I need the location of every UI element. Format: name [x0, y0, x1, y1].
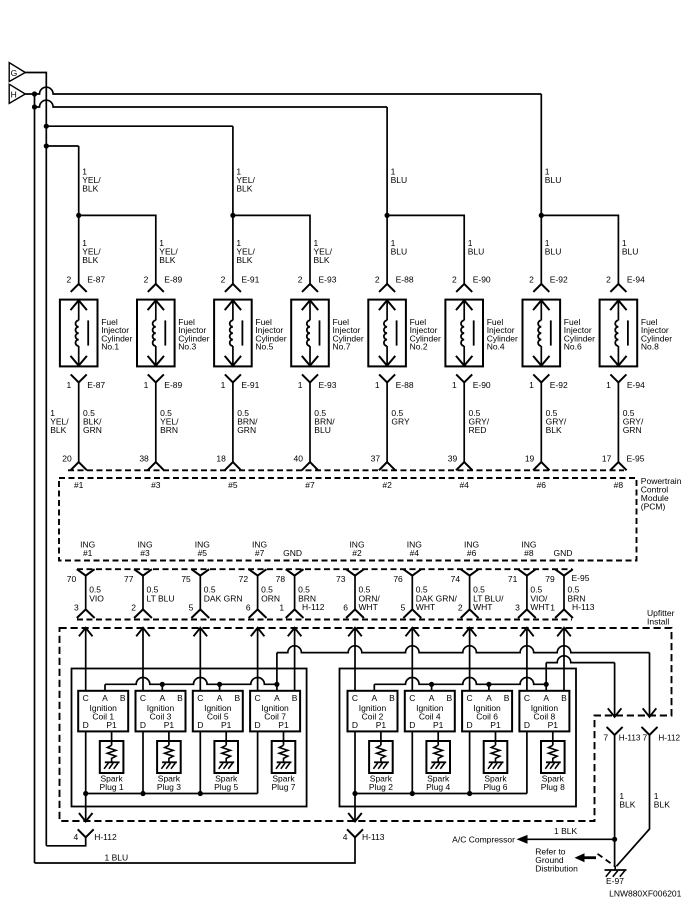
wire PCM pin 75 to upfitter pin 5 [199, 576, 201, 610]
spark plug 7 ground symbol [277, 761, 292, 763]
svg-text:E-88: E-88 [396, 380, 414, 390]
svg-text:Plug 8: Plug 8 [541, 782, 565, 792]
wire entering upfitter install (arrow) [136, 628, 150, 637]
spark plug 4 resistor [434, 745, 443, 762]
junction A-bus [160, 682, 165, 687]
svg-text:C: C [197, 693, 203, 703]
wire BLU branch to injectors 2-4 with hop over G vertical [35, 100, 388, 107]
svg-text:WHT: WHT [530, 602, 549, 612]
ignition coil 6 box [462, 691, 512, 732]
wire coil 5 P1 to spark plug 5 [225, 731, 227, 745]
svg-text:E-87: E-87 [87, 380, 105, 390]
wire right coil D bus [355, 793, 527, 795]
spark plug 5 resistor [222, 745, 231, 762]
svg-text:GRN: GRN [83, 425, 102, 435]
wire left D bus exit to H-112 pin 4 [85, 794, 87, 822]
svg-text:Plug 1: Plug 1 [100, 782, 124, 792]
svg-text:C: C [409, 693, 415, 703]
svg-text:DAK GRN: DAK GRN [204, 593, 243, 603]
svg-text:No.2: No.2 [410, 342, 428, 352]
svg-text:BLU: BLU [391, 247, 408, 257]
svg-text:1: 1 [606, 380, 611, 390]
svg-text:39: 39 [448, 453, 458, 463]
wire right coil A-bus riser to H-113 pin 7 (hop) [545, 663, 547, 685]
left ignition coil group box [72, 669, 307, 807]
svg-text:E-97: E-97 [606, 876, 624, 886]
svg-text:A: A [543, 693, 549, 703]
svg-text:H-112: H-112 [658, 733, 680, 742]
svg-text:#5: #5 [198, 548, 208, 558]
svg-text:E-95: E-95 [572, 573, 590, 583]
upfitter connector pin 3 fork [518, 609, 536, 618]
junction D bus [410, 791, 415, 796]
svg-text:LT BLU: LT BLU [147, 593, 175, 603]
fuel injector E-94 cylinder No.8 box [600, 300, 638, 367]
svg-text:BLK: BLK [654, 799, 670, 809]
svg-text:B: B [446, 693, 452, 703]
PCM pin 76 fork [403, 569, 421, 575]
svg-text:Install: Install [647, 617, 669, 627]
svg-text:#7: #7 [305, 480, 315, 490]
wire coil 7 D pin to ground bus [257, 731, 259, 793]
svg-text:P1: P1 [278, 720, 289, 730]
svg-text:BLK: BLK [50, 425, 66, 435]
svg-text:E-93: E-93 [319, 380, 337, 390]
wire PCM pin 79 to upfitter pin 1 [563, 576, 565, 610]
svg-text:A: A [159, 693, 165, 703]
svg-text:WHT: WHT [359, 602, 378, 612]
wire E-94 to PCM pin 17 [617, 382, 619, 462]
connector E-94 pin 1 (fork) [610, 374, 626, 382]
svg-text:C: C [352, 693, 358, 703]
fuel injector E-93 cylinder No.7 box [291, 300, 329, 367]
svg-text:D: D [409, 720, 415, 730]
connector E-91 pin 2 (fork) [225, 284, 241, 292]
svg-text:BLU: BLU [391, 175, 408, 185]
svg-text:18: 18 [216, 453, 226, 463]
wire coil 4 P1 to spark plug 4 [437, 731, 439, 745]
connector E-89 pin 2 (fork) [148, 284, 164, 292]
fuel injector E-89 core bar [164, 320, 166, 345]
svg-text:#6: #6 [467, 548, 477, 558]
wire 1 BLK from H-113 pin 7 to ground E-97 [614, 735, 617, 866]
connector E-94 pin 2 (fork) [610, 284, 626, 292]
wire entering upfitter install (arrow) [406, 628, 420, 637]
wire entering upfitter install (arrow) [194, 628, 208, 637]
svg-text:BLK: BLK [159, 255, 175, 265]
wire left coil A-bus riser to H-112 pin 7 (hops) [276, 653, 278, 685]
svg-text:P1: P1 [490, 720, 501, 730]
svg-text:1: 1 [452, 380, 457, 390]
wire PCM pin 71 to upfitter pin 3 [526, 576, 528, 610]
wire coil 1 P1 to spark plug 1 [111, 731, 113, 745]
upfitter connector pin 5 fork [191, 609, 209, 618]
svg-text:H-113: H-113 [619, 733, 641, 742]
spark plug 8 resistor [549, 745, 558, 762]
svg-text:2: 2 [375, 274, 380, 284]
wire coil 4 D pin to ground bus [411, 731, 413, 793]
wire coil 7 P1 to spark plug 7 [283, 731, 285, 745]
svg-text:E-93: E-93 [319, 274, 337, 284]
svg-text:1: 1 [375, 380, 380, 390]
fuel injector E-92 core bar [550, 320, 552, 345]
svg-text:BRN: BRN [160, 425, 178, 435]
svg-text:E-87: E-87 [87, 274, 105, 284]
wire PCM pin 73 to upfitter pin 6 [354, 576, 356, 610]
svg-text:BLU: BLU [468, 247, 485, 257]
wire YEL/BLK branch to injectors 1-3 [46, 145, 78, 147]
spark plug 3 ground symbol [162, 761, 177, 763]
svg-text:4: 4 [73, 832, 78, 842]
svg-text:H-112: H-112 [302, 602, 325, 612]
fuel injector E-87 core bar [87, 320, 89, 345]
wire right A-pin bus with hops [374, 678, 546, 685]
svg-text:20: 20 [62, 453, 72, 463]
wire coil 2 D pin to ground bus [354, 731, 356, 793]
wire coil 6 D pin to ground bus [469, 731, 471, 793]
ignition coil 4 box [405, 691, 455, 732]
upfitter connector pin 1 fork [286, 609, 304, 618]
wire left long vertical (1 BLU) down to bottom bus [34, 94, 36, 863]
junction A-bus [486, 682, 491, 687]
junction A-bus [544, 682, 549, 687]
svg-text:#5: #5 [228, 480, 238, 490]
fuel injector E-94 core bar [627, 320, 629, 345]
wire entering upfitter install (arrow) [557, 628, 571, 637]
svg-text:D: D [352, 720, 358, 730]
wire PCM pin 78 to upfitter pin 1 [294, 576, 296, 610]
junction A/C compressor tap [612, 837, 617, 842]
svg-text:1: 1 [550, 602, 555, 612]
junction D bus [198, 791, 203, 796]
fuel injector E-93 core bar [319, 320, 321, 345]
wire E-93 to PCM pin 40 [309, 382, 311, 462]
wire right D bus exit to H-113 pin 4 [354, 794, 356, 822]
svg-text:P1: P1 [221, 720, 232, 730]
svg-text:A: A [486, 693, 492, 703]
fuel injector E-87 cylinder No.1 box [60, 300, 98, 367]
feed connector G (triangle) [9, 63, 25, 82]
PCM pin 74 fork [461, 569, 479, 575]
wire E-90 to PCM pin 39 [463, 382, 465, 462]
svg-text:#8: #8 [524, 548, 534, 558]
connector E-87 pin 2 (fork) [71, 284, 87, 292]
connector E-93 pin 1 (fork) [302, 374, 318, 382]
svg-text:17: 17 [602, 453, 612, 463]
svg-text:3: 3 [515, 602, 520, 612]
wire E-91 to PCM pin 18 [232, 382, 234, 462]
wire pair branch E-88 to E-90 [387, 215, 464, 284]
svg-text:73: 73 [336, 574, 346, 584]
svg-text:76: 76 [393, 574, 403, 584]
svg-text:No.7: No.7 [333, 342, 351, 352]
svg-text:38: 38 [139, 453, 149, 463]
PCM pin 78 fork [286, 569, 304, 575]
svg-text:BLK: BLK [236, 184, 252, 194]
svg-text:(PCM): (PCM) [641, 501, 666, 511]
svg-text:BLK: BLK [619, 799, 635, 809]
svg-text:E-90: E-90 [473, 274, 491, 284]
wire coil 2 P1 to spark plug 2 [380, 731, 382, 745]
svg-text:Plug 2: Plug 2 [369, 782, 393, 792]
svg-text:6: 6 [246, 602, 251, 612]
wire entering upfitter install (arrow) [251, 628, 265, 637]
svg-text:Distribution: Distribution [535, 864, 578, 874]
svg-text:RED: RED [469, 425, 487, 435]
svg-text:WHT: WHT [473, 602, 492, 612]
svg-text:C: C [255, 693, 261, 703]
svg-text:A: A [429, 693, 435, 703]
svg-text:BLK: BLK [82, 184, 98, 194]
connector E-90 pin 1 (fork) [456, 374, 472, 382]
spark plug 6 box [484, 741, 508, 773]
svg-text:BLK: BLK [82, 255, 98, 265]
svg-text:#1: #1 [83, 548, 93, 558]
junction BLU vertical / branch line 2 [32, 104, 37, 109]
svg-text:No.8: No.8 [641, 342, 659, 352]
svg-text:1: 1 [529, 380, 534, 390]
svg-text:E-89: E-89 [164, 380, 182, 390]
svg-text:2: 2 [458, 602, 463, 612]
PCM module dashed box outline [59, 478, 637, 561]
svg-text:No.4: No.4 [487, 342, 505, 352]
wire pair branch E-91 to E-93 [233, 215, 310, 284]
svg-text:BLK: BLK [236, 255, 252, 265]
svg-text:BLK: BLK [314, 255, 330, 265]
fuel injector E-88 cylinder No.2 box [368, 300, 406, 367]
svg-text:5: 5 [189, 602, 194, 612]
svg-text:1: 1 [144, 380, 149, 390]
wire pair branch E-87 to E-89 [79, 215, 156, 284]
svg-text:D: D [140, 720, 146, 730]
ignition coil 7 box [250, 691, 300, 732]
fuel injector E-90 internal symbol (arrows + coil) [463, 300, 465, 320]
svg-text:B: B [504, 693, 510, 703]
svg-text:Plug 6: Plug 6 [483, 782, 507, 792]
svg-text:E-89: E-89 [164, 274, 182, 284]
junction G vertical / branch line 3 [44, 124, 49, 129]
svg-text:2: 2 [606, 274, 611, 284]
ground E-97 symbol [614, 866, 616, 870]
svg-text:B: B [234, 693, 240, 703]
svg-text:#3: #3 [140, 548, 150, 558]
fuel injector E-90 core bar [473, 320, 475, 345]
fuel injector E-91 core bar [241, 320, 243, 345]
svg-text:P1: P1 [164, 720, 175, 730]
spark plug 6 ground symbol [489, 761, 504, 763]
wire E-89 to PCM pin 38 [155, 382, 157, 462]
wire YEL/BLK branch to injectors 5-7 [46, 125, 233, 127]
svg-text:LNW880XF006201: LNW880XF006201 [609, 889, 682, 899]
svg-text:H-112: H-112 [94, 832, 117, 842]
wire entering upfitter install (arrow) [520, 628, 534, 637]
svg-text:6: 6 [343, 602, 348, 612]
svg-text:A: A [102, 693, 108, 703]
junction D bus [352, 791, 357, 796]
connector H-113 pin 4 fork [347, 829, 363, 837]
PCM pin 72 fork [249, 569, 267, 575]
svg-text:1 BLK: 1 BLK [554, 826, 577, 836]
wire feed drop to pair junction col E-91 [232, 126, 234, 284]
svg-text:Plug 7: Plug 7 [271, 782, 295, 792]
svg-text:GRY: GRY [391, 417, 410, 427]
fuel injector E-88 internal symbol (arrows + coil) [386, 300, 388, 320]
connector E-88 pin 2 (fork) [379, 284, 395, 292]
spark plug 7 box [272, 741, 296, 773]
svg-text:40: 40 [294, 453, 304, 463]
svg-text:H-113: H-113 [362, 832, 385, 842]
fuel injector E-92 internal symbol (arrows + coil) [540, 300, 542, 320]
PCM connector row E-95 (dashed) [68, 469, 624, 471]
svg-text:2: 2 [144, 274, 149, 284]
svg-text:75: 75 [181, 574, 191, 584]
svg-text:C: C [467, 693, 473, 703]
svg-text:#8: #8 [614, 480, 624, 490]
wire coil 3 D pin to ground bus [142, 731, 144, 793]
svg-text:37: 37 [371, 453, 381, 463]
wire coil 1 D pin to ground bus [85, 731, 87, 793]
wire H-113 pin 4 to 1 BLU bus [35, 837, 356, 863]
upfitter connector pin 3 fork [77, 609, 95, 618]
svg-text:BLU: BLU [622, 247, 639, 257]
svg-text:E-88: E-88 [396, 274, 414, 284]
wire E-88 to PCM pin 37 [386, 382, 388, 462]
fuel injector E-94 internal symbol (arrows + coil) [617, 300, 619, 320]
svg-text:GND: GND [554, 548, 573, 558]
junction A-bus [274, 682, 279, 687]
spark plug 8 ground symbol [546, 761, 561, 763]
svg-text:BLK: BLK [546, 425, 562, 435]
svg-text:E-90: E-90 [473, 380, 491, 390]
junction G vertical / branch line 4 [44, 143, 49, 148]
svg-text:D: D [255, 720, 261, 730]
wire H feed horizontal with hop over G vertical [25, 87, 541, 94]
PCM pin 75 fork [191, 569, 209, 575]
svg-text:P1: P1 [433, 720, 444, 730]
svg-text:2: 2 [452, 274, 457, 284]
svg-text:E-94: E-94 [627, 274, 645, 284]
svg-text:1 BLU: 1 BLU [105, 853, 129, 863]
fuel injector E-90 cylinder No.4 box [445, 300, 483, 367]
bold arrow to ground distribution [575, 853, 585, 862]
PCM pin 77 fork [134, 569, 152, 575]
connector H-112 pin 4 fork [78, 829, 94, 837]
feed connector H (triangle) [9, 84, 25, 103]
wire coil 3 P1 to spark plug 3 [168, 731, 170, 745]
svg-text:#1: #1 [74, 480, 84, 490]
svg-text:71: 71 [508, 574, 518, 584]
svg-text:B: B [292, 693, 298, 703]
ignition coil 2 box [348, 691, 398, 732]
junction D bus [467, 791, 472, 796]
connector E-88 pin 1 (fork) [379, 374, 395, 382]
junction H feed / left long vertical [32, 91, 37, 96]
wire entering upfitter install (arrow) [348, 628, 362, 637]
svg-text:Plug 4: Plug 4 [426, 782, 450, 792]
fuel injector E-93 internal symbol (arrows + coil) [309, 300, 311, 320]
spark plug 4 ground symbol [431, 761, 446, 763]
svg-text:P1: P1 [548, 720, 559, 730]
svg-text:A/C Compressor: A/C Compressor [452, 834, 515, 844]
ignition coil 8 box [519, 691, 569, 732]
svg-text:70: 70 [67, 574, 77, 584]
fuel injector E-92 cylinder No.6 box [523, 300, 561, 367]
svg-text:WHT: WHT [416, 602, 435, 612]
svg-text:1: 1 [66, 380, 71, 390]
connector E-92 pin 1 (fork) [533, 374, 549, 382]
wire H-113 pin 7 entry arrow [608, 708, 622, 717]
wire H-112 pin 7 entry arrow [643, 708, 657, 717]
svg-text:#6: #6 [537, 480, 547, 490]
svg-text:2: 2 [529, 274, 534, 284]
svg-text:A: A [371, 693, 377, 703]
PCM pin 73 fork [346, 569, 364, 575]
upfitter connector pin 6 fork [249, 609, 267, 618]
fuel injector E-89 internal symbol (arrows + coil) [155, 300, 157, 320]
svg-text:#2: #2 [382, 480, 392, 490]
junction D bus [140, 791, 145, 796]
svg-text:No.5: No.5 [255, 342, 273, 352]
wire coil 6 P1 to spark plug 6 [495, 731, 497, 745]
svg-text:GRN: GRN [623, 425, 642, 435]
svg-text:B: B [561, 693, 567, 703]
PCM pin 70 fork [77, 569, 95, 575]
svg-text:A: A [217, 693, 223, 703]
fuel injector E-89 cylinder No.3 box [137, 300, 175, 367]
svg-text:7: 7 [642, 732, 647, 742]
svg-text:H-113: H-113 [572, 602, 595, 612]
spark plug 3 resistor [165, 745, 174, 762]
svg-text:7: 7 [603, 732, 608, 742]
wire feed drop to pair junction col E-88 [386, 107, 388, 284]
connector row H-112/H-113 (dashed) [77, 619, 572, 621]
wire 1 BLK from H-112 pin 7 to ground E-97 [616, 735, 649, 866]
svg-text:2: 2 [131, 602, 136, 612]
svg-text:1: 1 [221, 380, 226, 390]
wire to A/C Compressor with arrow [528, 838, 615, 840]
spark plug 1 resistor [107, 745, 116, 762]
ignition coil 3 box [136, 691, 186, 732]
connector H-113 pin 7 fork [607, 727, 623, 735]
junction pair split at E-87 [76, 213, 81, 218]
svg-text:74: 74 [451, 574, 461, 584]
spark plug 4 box [426, 741, 450, 773]
svg-text:5: 5 [401, 602, 406, 612]
svg-text:B: B [120, 693, 126, 703]
svg-text:A: A [274, 693, 280, 703]
PCM pin 79 fork [555, 569, 573, 575]
spark plug 6 resistor [491, 745, 500, 762]
wire G apex to vertical feed [25, 73, 46, 846]
svg-text:2: 2 [298, 274, 303, 284]
wire coil 5 D pin to ground bus [199, 731, 201, 793]
ignition coil 5 box [193, 691, 243, 732]
svg-text:19: 19 [525, 453, 535, 463]
junction D bus [83, 791, 88, 796]
wire pair branch E-92 to E-94 [541, 215, 618, 284]
ignition coil 1 box [78, 691, 128, 732]
wire PCM pin 76 to upfitter pin 5 [411, 576, 413, 610]
svg-text:ORN: ORN [261, 593, 280, 603]
spark plug 2 resistor [377, 745, 386, 762]
spark plug 1 ground symbol [105, 761, 120, 763]
dashed continuation to E-97 [598, 854, 616, 867]
spark plug 1 box [100, 741, 124, 773]
svg-text:E-95: E-95 [627, 453, 645, 463]
PCM connector row E-95 lower (dashed) [77, 568, 572, 570]
fuel injector E-91 internal symbol (arrows + coil) [232, 300, 234, 320]
svg-text:#4: #4 [459, 480, 469, 490]
